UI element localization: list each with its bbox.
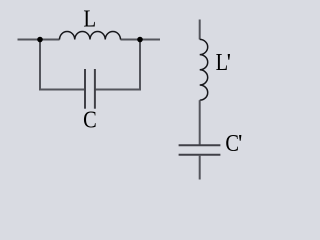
wire bottom left to capacitor	[39, 89, 85, 91]
wire right vertical branch	[139, 40, 141, 91]
svg-text:': '	[238, 130, 242, 157]
capacitor C (right plate)	[94, 69, 96, 109]
inductor L'	[200, 39, 208, 100]
svg-text:C: C	[83, 106, 97, 133]
svg-text:L: L	[83, 5, 96, 32]
wire left stub to inductor (top rail of parallel tank)	[18, 39, 60, 41]
wire top lead of series branch	[199, 20, 201, 40]
wire capacitor to bottom right	[95, 89, 141, 91]
svg-text:': '	[227, 49, 231, 76]
wire left vertical branch	[39, 40, 41, 91]
wire inductor right lead to right stub	[121, 39, 161, 41]
capacitor C (left plate)	[84, 69, 86, 109]
node B (right junction dot)	[137, 37, 143, 43]
svg-text:C: C	[225, 129, 239, 156]
wire bottom lead of series branch	[199, 155, 201, 180]
inductor L	[60, 32, 121, 40]
wire inductor to capacitor	[199, 100, 201, 145]
capacitor C' (bottom plate)	[179, 154, 221, 156]
capacitor C' (top plate)	[179, 144, 221, 146]
node A (left junction dot)	[37, 37, 43, 43]
